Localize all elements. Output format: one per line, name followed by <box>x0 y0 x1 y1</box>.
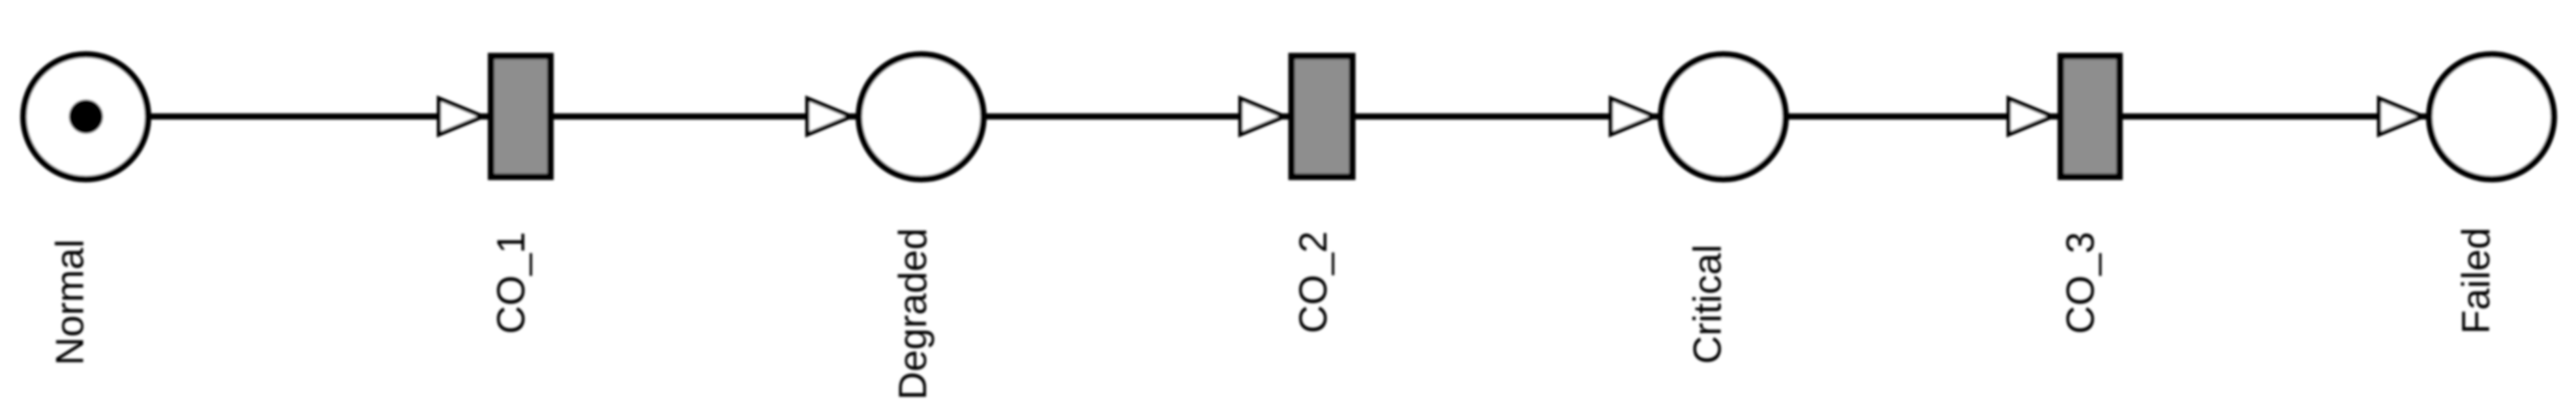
arrowhead into CO_1 <box>439 99 483 134</box>
place Critical <box>1661 55 1786 179</box>
transition CO_2 <box>1292 56 1353 177</box>
arrowhead into Degraded <box>807 99 851 134</box>
place Failed <box>2429 55 2554 179</box>
svg-text:Failed: Failed <box>2454 228 2498 334</box>
svg-text:CO_2: CO_2 <box>1291 231 1335 333</box>
arrowhead into CO_2 <box>1240 99 1284 134</box>
transition CO_1 <box>491 56 550 177</box>
wire Normal to CO_1 <box>149 114 488 120</box>
wire CO_2 to Critical <box>1355 114 1660 120</box>
arrowhead into Failed <box>2379 99 2423 134</box>
arrowhead into Critical <box>1611 99 1655 134</box>
place Degraded <box>859 55 983 179</box>
wire Critical to CO_3 <box>1787 114 2058 120</box>
svg-text:CO_1: CO_1 <box>489 232 533 334</box>
svg-text:Normal: Normal <box>48 239 92 365</box>
token in Normal <box>69 100 103 134</box>
arrowhead into CO_3 <box>2009 99 2052 134</box>
place Normal <box>23 55 148 179</box>
svg-text:CO_3: CO_3 <box>2059 232 2103 334</box>
svg-text:Critical: Critical <box>1686 245 1730 364</box>
svg-text:Degraded: Degraded <box>891 228 935 400</box>
wire CO_3 to Failed <box>2123 114 2428 120</box>
wire Degraded to CO_2 <box>985 114 1289 120</box>
transition CO_3 <box>2061 56 2119 177</box>
wire CO_1 to Degraded <box>554 114 858 120</box>
